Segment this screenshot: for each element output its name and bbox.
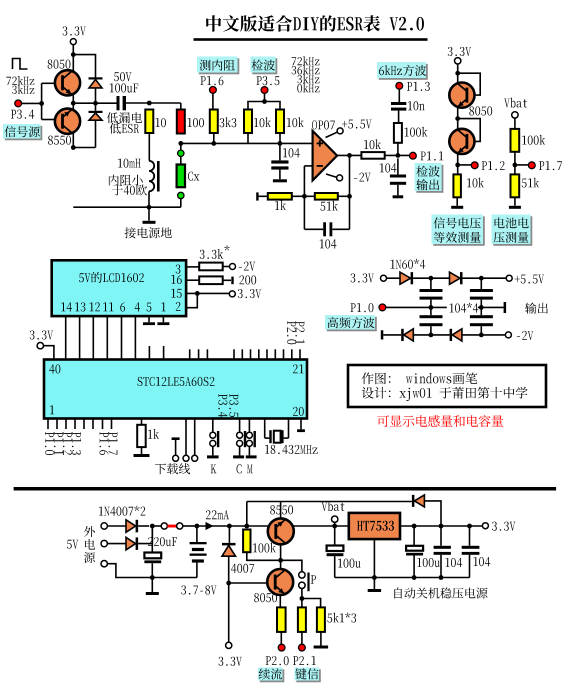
node Cx bottom (green) xyxy=(178,192,184,198)
download header 下载线 xyxy=(172,437,180,440)
capacitor 104 detect filter xyxy=(380,163,384,172)
pin label P3.4 in-box xyxy=(218,394,227,417)
wire ground return rail xyxy=(107,564,196,578)
switch terminal A xyxy=(161,523,167,529)
diode D6 1N60 xyxy=(450,272,461,284)
pin label P1.6 xyxy=(100,432,109,455)
label 高频方波 xyxy=(327,317,377,332)
wire output column vertical xyxy=(349,155,351,229)
capacitor 104 noninverting filter xyxy=(283,148,287,157)
wire base Q2 xyxy=(42,119,56,121)
wire to P1.7 xyxy=(515,164,529,166)
terminal ext power gnd xyxy=(101,561,107,567)
power 3.3V terminal xyxy=(63,26,68,35)
pin label P1.7 xyxy=(109,432,118,455)
node P1.6 xyxy=(210,87,217,94)
wire cap B1 to mid xyxy=(480,300,482,316)
resistor 1k horizontal xyxy=(268,193,292,200)
terminal ext power mid xyxy=(101,540,107,546)
capacitor 104 feedback xyxy=(304,228,323,230)
wire 1k to junction xyxy=(292,195,305,197)
diode D2 xyxy=(89,111,103,113)
wire 100k to base junction xyxy=(247,552,281,560)
wire 51k to output column xyxy=(338,195,350,197)
wire Q5 to base junction vertical xyxy=(280,544,282,569)
ground pin20 xyxy=(300,419,302,430)
resistor P2.1 divider xyxy=(298,607,306,632)
junction bus at op-amp input xyxy=(278,141,283,146)
capacitor 104 B2 xyxy=(470,315,493,318)
wire 4007 down to P2.0 node xyxy=(228,556,230,642)
inductor 10mH xyxy=(149,161,154,192)
diode D1 xyxy=(89,77,103,79)
ground supply xyxy=(151,578,153,593)
wire 100k to output node xyxy=(397,143,399,156)
label 检波输出 xyxy=(416,165,443,193)
node P3.4 signal source xyxy=(15,100,22,107)
node P1.1 xyxy=(410,152,417,159)
label 5V 外电源 xyxy=(67,540,72,549)
crystal 18.432MHz xyxy=(264,419,266,439)
junction out B xyxy=(439,524,444,529)
resistor 10k A xyxy=(244,110,252,134)
junction output xyxy=(347,153,352,158)
resistor 100k bias xyxy=(243,530,250,553)
terminal +5.5V output xyxy=(506,275,512,281)
label 72kHz 3kHz xyxy=(6,77,11,85)
capacitor 104 A2 xyxy=(420,315,443,318)
capacitor 100uF 50V coupling xyxy=(117,96,120,110)
diode D11 4007 freewheel xyxy=(228,526,230,543)
title underline xyxy=(194,38,428,41)
wire base drive to Q5 xyxy=(229,582,267,584)
label 104*4 xyxy=(447,301,478,313)
button M xyxy=(248,419,250,433)
ground under 1k xyxy=(141,447,143,454)
node P2.1 xyxy=(299,644,306,651)
wire bottom measure bus xyxy=(181,142,313,144)
wire P3.5 split xyxy=(248,102,280,110)
junction diode mid xyxy=(93,101,98,106)
junction rail inductor xyxy=(147,205,152,210)
wire to P1.2 xyxy=(458,164,472,166)
wire +5.5V supply diag xyxy=(326,132,339,138)
junction 4007 column xyxy=(227,524,232,529)
transistor Q4 8050 diode-connected xyxy=(449,129,474,154)
wire D10 up to node xyxy=(138,526,152,544)
wire to P2.1 xyxy=(301,632,303,645)
junction base drive xyxy=(226,581,231,586)
label 信号源 xyxy=(5,126,43,141)
switch red link xyxy=(167,525,176,528)
wire regulator ground xyxy=(373,539,375,577)
battery 3.7-8V xyxy=(196,526,198,542)
terminal +5.5V xyxy=(337,128,343,134)
junction P divider xyxy=(300,596,305,601)
wire 10n to 100k xyxy=(398,111,400,123)
wire 10kB bottom stub xyxy=(279,133,281,143)
wire D8 to -2V xyxy=(462,334,506,336)
wire top link left drop xyxy=(246,502,248,527)
section divider line xyxy=(14,487,557,491)
wire feedback left vertical xyxy=(303,166,305,229)
transistor Q6 8050 xyxy=(267,569,293,595)
wire Vbat tap xyxy=(334,522,336,526)
resistor 1k reset (white) xyxy=(137,425,146,447)
chip U2 STC12LE5A60S2 xyxy=(44,360,307,419)
resistor 10k B xyxy=(276,110,284,134)
transistor Q5 8550 switch xyxy=(270,505,275,514)
button P power xyxy=(299,572,305,578)
node P2.0 xyxy=(278,644,285,651)
op-amp U1 OP07 xyxy=(312,120,317,129)
wire base Q1 xyxy=(42,82,56,84)
wire 3k3 bottom stub xyxy=(213,133,215,143)
junction collector branch xyxy=(71,52,76,57)
wire to D10 xyxy=(107,543,126,545)
junction bus at R100 xyxy=(178,141,183,146)
label 自动关机稳压电源 xyxy=(394,588,402,599)
wire D5 to D6 xyxy=(413,277,449,279)
ground for 104 xyxy=(279,170,281,180)
junction battery node xyxy=(195,524,200,529)
terminal 3.3V output xyxy=(482,523,488,529)
wire Q4 collector-base loop xyxy=(458,119,481,142)
capacitor 104 A1 xyxy=(430,278,432,289)
title text 中文版适合DIY的ESR表 V2.0 xyxy=(206,15,221,32)
resistor 51k battery divider xyxy=(511,174,520,197)
wire 10k to P1.1 xyxy=(385,154,410,156)
wire D7 to D8 xyxy=(413,334,449,336)
junction bus at 3k3 xyxy=(211,141,216,146)
junction P1.7 node xyxy=(513,163,518,168)
resistor P2.0 pulldown xyxy=(277,607,286,632)
capacitor 104 out A xyxy=(440,526,442,546)
wire P1.6 to 3k3 xyxy=(212,93,214,110)
wire emitter output node xyxy=(73,102,116,104)
wire P to divider xyxy=(301,589,303,608)
wire LCD data pins to MCU xyxy=(65,316,67,359)
transistor Q3 8050 diode-connected xyxy=(449,83,474,108)
label 信号电压等效测量 xyxy=(433,216,485,246)
pin label P3.5 in-box xyxy=(229,394,238,417)
wire P1.3 to 10n xyxy=(398,89,400,102)
chip LCD1602 xyxy=(52,260,186,316)
junction gnd rail B xyxy=(412,575,417,580)
junction top loop xyxy=(455,71,460,76)
wire mcu to 1k xyxy=(141,419,143,425)
junction pin15/pin2 xyxy=(195,291,200,296)
mcu bottom port pins xyxy=(47,419,49,430)
diode D10 1N4007 xyxy=(126,537,136,550)
resistor 3.3k* xyxy=(200,250,205,259)
node P1.3 xyxy=(396,82,403,89)
wire cap A1 to mid xyxy=(430,300,432,316)
junction feedback right xyxy=(347,194,352,199)
pin label P2.0 xyxy=(287,321,296,344)
wire LCD pin2 loop xyxy=(186,293,197,307)
wire to D9 xyxy=(107,525,126,527)
pin label P2.1 xyxy=(295,321,304,344)
pin label P1.2 xyxy=(63,432,72,455)
wire regulator output xyxy=(400,525,482,527)
label 输出 xyxy=(525,303,536,314)
junction top row A xyxy=(429,276,434,281)
wire collector top link xyxy=(247,501,412,503)
junction supply node xyxy=(150,524,155,529)
wire Q6 emitter to R xyxy=(279,595,281,607)
wire D2 down xyxy=(95,120,97,147)
junction P3.5 split xyxy=(262,99,267,104)
junction mid row A xyxy=(429,305,434,310)
terminal 3.3V LCD xyxy=(229,291,235,297)
wire cap to resistor row xyxy=(126,102,181,104)
wire 8550 base drop xyxy=(280,502,282,519)
capacitor 10n xyxy=(391,102,406,105)
diode D5 1N60 xyxy=(400,272,411,284)
wire 3.3V down through Q1 Q2 xyxy=(72,45,74,148)
wire D9 out xyxy=(138,525,149,527)
resistor 10 xyxy=(145,110,153,134)
power 3.3V terminal right xyxy=(448,47,453,56)
wire LCD pin15 xyxy=(186,292,229,294)
wire switch to battery node xyxy=(183,525,197,527)
terminal 3.3V bottom xyxy=(226,642,232,648)
junction feedback left xyxy=(302,194,307,199)
ground under 10k xyxy=(456,197,458,206)
wire P3.4 to base rail xyxy=(21,102,41,104)
junction mid loop xyxy=(455,116,460,121)
button K xyxy=(212,419,214,433)
terminator 200 xyxy=(231,277,233,285)
ground under 5k1 xyxy=(320,632,322,646)
power 3.3V MCU pin40 xyxy=(30,330,35,339)
wire 3.3V column xyxy=(457,64,459,174)
pin label P1.1 xyxy=(54,432,63,455)
ground LCD pin5 xyxy=(148,316,150,322)
wire op-amp output xyxy=(337,154,361,156)
terminal -2V output xyxy=(505,332,511,338)
capacitor Cx under test (green) xyxy=(177,165,185,188)
resistor 100k (white) xyxy=(394,123,402,143)
junction 100k top xyxy=(244,524,249,529)
label 续流 xyxy=(260,669,285,682)
capacitor 100u output xyxy=(413,526,415,546)
ground regulator xyxy=(373,578,375,590)
wire LCD pin16 backlight xyxy=(186,279,199,281)
junction mid row B xyxy=(479,305,484,310)
label frequency list 72/36/3/0 kHz xyxy=(292,57,297,65)
terminator bottom row xyxy=(381,330,384,339)
wire D6 to +5.5V xyxy=(463,277,507,279)
junction out C xyxy=(467,524,472,529)
wire inverting input xyxy=(304,165,312,167)
wire 10kA bottom stub xyxy=(247,133,249,143)
diode D7 1N60 xyxy=(401,329,404,341)
resistor 10k to ground xyxy=(453,174,461,197)
label 电池电压测量 xyxy=(493,216,532,246)
capacitor 104 B1 xyxy=(480,278,482,289)
resistor 200 xyxy=(199,276,223,284)
terminal 3.3V quadrupler xyxy=(351,273,356,282)
author box xyxy=(348,365,546,407)
label 测内阻 P1.6 xyxy=(199,58,240,74)
button C xyxy=(239,419,241,433)
wire R10 to inductor xyxy=(148,133,150,161)
wire to P2.0 xyxy=(280,632,282,645)
diode D12 bypass xyxy=(412,495,415,507)
wire 100k to P1.7 node xyxy=(514,152,516,175)
node P1.0 drive xyxy=(350,303,355,312)
terminal Vbat bottom xyxy=(321,502,327,511)
node P3.5 xyxy=(261,87,268,94)
wire Q3 collector-base loop xyxy=(458,73,481,95)
wire inductor to rail xyxy=(148,191,150,207)
wire 1k left terminator xyxy=(256,192,258,200)
transistor Q2 8550 xyxy=(55,109,80,134)
wire bottom row left xyxy=(383,334,401,336)
junction gnd rail C xyxy=(439,575,444,580)
junction rail at 220uF xyxy=(150,575,155,580)
transistor Q1 8050 xyxy=(48,60,53,69)
wire P1.0 mid row xyxy=(386,306,505,308)
junction bottom row A xyxy=(429,333,434,338)
ground under 51k xyxy=(514,197,516,206)
capacitor 104 out B xyxy=(469,526,471,546)
wire base rail vertical xyxy=(41,83,43,119)
wire into R100 xyxy=(180,103,182,110)
junction P1.2 node xyxy=(455,163,460,168)
wire to -2V terminal xyxy=(223,266,230,268)
resistor 51k feedback xyxy=(315,193,338,200)
junction Vbat xyxy=(332,524,337,529)
square wave icon xyxy=(13,59,28,70)
label 检波 P3.5 xyxy=(252,58,277,74)
node Cx top (green) xyxy=(178,150,184,156)
wire -2V supply diag xyxy=(326,174,337,178)
switch terminal B xyxy=(177,523,183,529)
node P1.2 xyxy=(471,162,478,169)
resistor 100 (red) xyxy=(177,110,185,134)
junction base rail xyxy=(39,101,44,106)
capacitor 220uF xyxy=(148,537,153,546)
label 1N60*4 xyxy=(391,260,395,269)
wire Vbat to 100k xyxy=(514,118,516,129)
wire branch to 5k1 xyxy=(302,599,321,608)
wire junction to 51k xyxy=(304,195,314,197)
wire R100 to Cx xyxy=(180,143,182,164)
mcu top stub pins xyxy=(148,346,150,360)
junction 10ohm top xyxy=(147,101,152,106)
diode D8 1N60 xyxy=(450,329,453,341)
wire with 22mA arrow xyxy=(197,525,349,527)
wire ground rail xyxy=(73,206,181,208)
terminal Vbat xyxy=(504,99,510,108)
wire D12 to output xyxy=(424,501,441,526)
label 6kHz方波 xyxy=(379,64,428,80)
resistor 5k1 xyxy=(317,607,325,632)
ground LCD pin1 xyxy=(162,316,164,322)
junction bottom row B xyxy=(479,333,484,338)
junction top row B xyxy=(479,276,484,281)
wire 3.3V to D5 xyxy=(387,277,400,279)
resistor 3k3 xyxy=(210,110,218,134)
terminal -2V LCD xyxy=(230,264,236,270)
wire D1 to D2 xyxy=(95,88,97,111)
junction out A xyxy=(412,524,417,529)
wire output ground rail xyxy=(335,577,470,579)
wire to switch xyxy=(152,525,161,527)
wire Q2 collector to diode col xyxy=(73,147,95,149)
junction gnd rail A xyxy=(372,575,377,580)
wire 3.3V to pin40 xyxy=(44,346,54,360)
pin label P1.0 xyxy=(45,432,54,455)
resistor 100k battery divider xyxy=(511,129,520,152)
junction Q5/Q6 node xyxy=(278,558,283,563)
terminal -2V xyxy=(337,175,343,181)
junction Q2 collector xyxy=(71,145,76,150)
label 1N4007*2 xyxy=(99,507,103,516)
diode D9 1N4007 xyxy=(126,520,136,533)
ground 接电源地 xyxy=(148,207,150,221)
node P1.7 xyxy=(528,162,535,169)
label 低漏电低ESR xyxy=(107,112,118,123)
wire Cx to ground rail xyxy=(180,199,182,208)
wire P button branch xyxy=(281,560,302,571)
regulator HT7533 xyxy=(349,513,400,539)
wire to diode chain top xyxy=(73,55,95,78)
junction emitter output xyxy=(71,101,76,106)
resistor 10k output (white) xyxy=(361,152,384,159)
pin label P1.3 xyxy=(72,432,81,455)
ground detect filter xyxy=(397,185,399,196)
terminal ext power + xyxy=(101,523,107,529)
junction detect node xyxy=(396,153,401,158)
capacitor 100u input xyxy=(334,526,336,546)
red note 可显示电感量和电容量 xyxy=(377,415,389,427)
label 键信 xyxy=(296,669,321,682)
terminator mid row xyxy=(504,302,507,313)
wire LCD pin3 contrast xyxy=(186,266,199,268)
